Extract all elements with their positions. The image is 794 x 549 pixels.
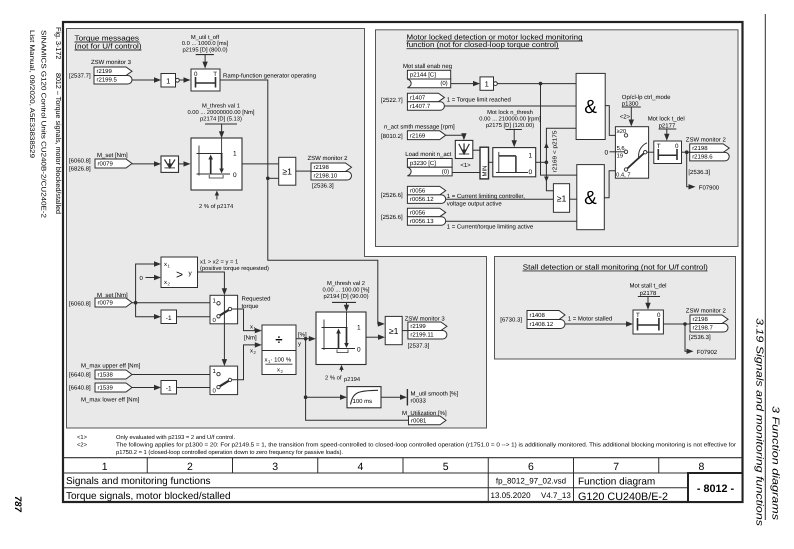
svg-text:1: 1	[357, 325, 361, 332]
svg-text:1 = Motor stalled: 1 = Motor stalled	[568, 316, 613, 323]
svg-text:r0056.13: r0056.13	[410, 218, 434, 225]
svg-text:1: 1	[102, 461, 108, 473]
label Mot stall enab neg	[403, 63, 452, 70]
svg-text:r2169 < p2175: r2169 < p2175	[552, 131, 559, 173]
svg-text:r1408: r1408	[530, 312, 546, 319]
svg-text:r1408.12: r1408.12	[530, 321, 554, 328]
wire timer T2 to ZSW monitor 2	[682, 150, 690, 154]
reference [2536.3] (stall)	[689, 334, 711, 341]
svg-text:ZSW monitor 2: ZSW monitor 2	[308, 155, 349, 162]
wire p2195 to timer T1	[202, 55, 207, 69]
svg-text:r2198.6: r2198.6	[692, 154, 713, 161]
svg-text:T: T	[636, 312, 640, 319]
switch S2	[210, 366, 238, 395]
svg-text:0: 0	[233, 172, 237, 179]
svg-text:0: 0	[657, 312, 661, 319]
footer table grid	[63, 458, 743, 502]
svg-text:13.05.2020: 13.05.2020	[491, 491, 532, 500]
comparator block x1>x2	[161, 257, 198, 288]
junction dot on timer line at OR1	[266, 177, 270, 181]
gray box: stall detection section	[495, 257, 736, 360]
reference [6640.8] b	[69, 385, 91, 392]
wire r0079 to abs A1	[132, 161, 161, 166]
svg-text:p2175 [D] (120.00): p2175 [D] (120.00)	[486, 122, 534, 129]
connector p2144 [C]	[407, 70, 450, 87]
label M_thresh val 2 parameter	[322, 280, 369, 302]
label M_max lower eff [Nm]	[81, 397, 140, 404]
inverter block -1 (a)	[161, 310, 177, 324]
connector r1407 / r1407.7 input	[407, 93, 444, 110]
label Op/cl-lp ctrl_mode p1300	[622, 94, 671, 108]
gray box: motor locked detection section	[376, 30, 739, 247]
svg-text:Mot lock t_del: Mot lock t_del	[648, 116, 685, 123]
svg-text:0.4, 7: 0.4, 7	[616, 172, 631, 179]
svg-text:function (not for closed-loop: function (not for closed-loop torque con…	[407, 40, 559, 49]
svg-text:0.00 ... 210000.00 [rpm]: 0.00 ... 210000.00 [rpm]	[479, 115, 541, 122]
svg-text:M_thresh val 1: M_thresh val 1	[202, 103, 240, 110]
svg-text:MIN: MIN	[482, 166, 489, 177]
svg-text:torque: torque	[242, 304, 260, 310]
svg-text:ZSW monitor 2: ZSW monitor 2	[686, 137, 727, 144]
svg-text:19: 19	[617, 153, 623, 160]
svg-text:Fig. 3-172: Fig. 3-172	[54, 27, 63, 59]
svg-text:r1407.7: r1407.7	[410, 103, 431, 110]
svg-text:(positive torque requested): (positive torque requested)	[200, 265, 269, 272]
svg-text:[Nm]: [Nm]	[244, 335, 257, 342]
svg-text:8012 – Torque signals, motor b: 8012 – Torque signals, motor blocked/sta…	[54, 73, 63, 214]
label ZSW monitor 3 output	[405, 316, 446, 323]
svg-text:Function diagram: Function diagram	[578, 476, 655, 487]
label Mot lock t_del parameter	[648, 116, 685, 130]
svg-text:&: &	[584, 97, 597, 118]
wire r2199.5 to NOT gate	[132, 77, 161, 82]
svg-text:M_max upper eff [Nm]: M_max upper eff [Nm]	[81, 363, 141, 370]
connector r1539 input	[95, 383, 132, 392]
svg-text:M_util t_off: M_util t_off	[191, 34, 220, 41]
switch S1	[210, 295, 238, 324]
wire p2177 to timer T2	[664, 129, 669, 141]
svg-text:Only evaluated with p2193 = 2: Only evaluated with p2193 = 2 and U/f co…	[116, 434, 235, 441]
footnote marker <2>	[620, 114, 631, 121]
OR gate OR2	[385, 316, 402, 344]
svg-text:&: &	[584, 188, 597, 209]
svg-text:p3230 [C]: p3230 [C]	[410, 160, 436, 167]
NOT gate N2	[480, 77, 497, 90]
selector switch p1300	[615, 127, 648, 179]
wire to fault F07900	[687, 152, 696, 189]
wire OR3 to AND2	[570, 198, 577, 200]
label M_set [Nm] lower	[97, 292, 128, 299]
svg-text:Requested: Requested	[242, 296, 271, 303]
svg-text:[2537.7]: [2537.7]	[69, 73, 91, 80]
AND gate AND1	[576, 73, 605, 139]
footer cell G120 CU240B/E-2	[578, 491, 668, 503]
page number 787	[12, 496, 23, 513]
gray box: torque messages + utilization section (L-shape)	[67, 29, 487, 429]
timer T3 on-delay	[633, 310, 663, 334]
wire divider output to hysteresis H2	[296, 336, 316, 341]
label [%] y output	[298, 332, 307, 348]
svg-text:787: 787	[12, 496, 23, 513]
svg-text:(0): (0)	[442, 168, 449, 175]
svg-text:0: 0	[357, 347, 361, 354]
constant 0 for selector	[605, 150, 625, 157]
svg-text:r0079: r0079	[98, 300, 114, 307]
wire hysteresis tail input H1	[215, 191, 219, 200]
svg-text:1: 1	[485, 80, 489, 89]
svg-text:Mot stall t_del: Mot stall t_del	[629, 283, 666, 290]
wire H1 output to OR1	[242, 163, 279, 165]
svg-text:[2536.3]: [2536.3]	[688, 169, 710, 176]
label M_set [Nm]	[97, 152, 128, 159]
wire p2178 to timer T3	[645, 297, 650, 310]
svg-text:SINAMICS G120 Control Units CU: SINAMICS G120 Control Units CU240B-2/CU2…	[40, 30, 47, 218]
abs value block A2	[455, 140, 473, 158]
svg-text:0: 0	[529, 169, 533, 176]
label Mot lock n_thresh parameter	[479, 109, 541, 130]
svg-text:3: 3	[272, 461, 278, 473]
svg-text:V4.7_13: V4.7_13	[541, 491, 571, 500]
svg-text:(not for U/f control): (not for U/f control)	[75, 42, 142, 51]
reference [2526.6] a	[381, 192, 403, 199]
svg-text:[6640.8]: [6640.8]	[69, 385, 91, 392]
svg-text:p2195 [D] (800.0): p2195 [D] (800.0)	[182, 47, 227, 54]
svg-text:≥1: ≥1	[282, 167, 292, 177]
connector r1538 input	[95, 370, 132, 379]
footer column numbers	[102, 461, 705, 473]
svg-text:r2198.10: r2198.10	[314, 173, 338, 180]
wire AND2 output to selector	[604, 171, 624, 198]
reference [2537.7]	[69, 73, 91, 80]
wire hysteresis tail input H2	[339, 365, 343, 372]
label 2 % of p2194	[325, 375, 361, 383]
constant 0 input	[140, 275, 162, 282]
svg-text:r2199.11: r2199.11	[410, 332, 434, 339]
left margin text: SINAMICS	[40, 30, 47, 218]
svg-text:1: 1	[166, 76, 170, 85]
svg-text:0.00 ... 100.00 [%]: 0.00 ... 100.00 [%]	[322, 287, 369, 294]
wire timer T3 to ZSW monitor 2 stall	[663, 322, 690, 326]
reference [2526.6] b	[381, 214, 403, 221]
svg-text:p2194 [D] (90.00): p2194 [D] (90.00)	[323, 293, 368, 300]
svg-text:r2198: r2198	[693, 316, 709, 323]
svg-text:>: >	[176, 268, 183, 282]
left margin text: List Manual	[28, 30, 35, 158]
wire NOT to timer T1	[179, 77, 190, 82]
svg-text:M_util smooth [%]: M_util smooth [%]	[411, 391, 459, 398]
svg-text:r1407: r1407	[410, 94, 426, 101]
label ZSW monitor 2 (motor locked)	[686, 137, 727, 144]
svg-text:[6826.8]: [6826.8]	[69, 166, 91, 173]
footnote marker <1>	[460, 162, 471, 169]
svg-text:n_act smth message [rpm]: n_act smth message [rpm]	[384, 124, 455, 131]
connector r2198 / r2198.10 output	[311, 163, 352, 180]
label Requested torque	[242, 296, 271, 311]
left margin text: Fig. 3-172 caption	[54, 27, 63, 214]
outer frame	[63, 22, 743, 502]
wire comparator y to switch controls	[198, 272, 228, 366]
svg-text:[6060.8]: [6060.8]	[69, 301, 91, 308]
wire p2144 to NOT gate N2	[451, 81, 480, 86]
label M_max upper eff [Nm]	[81, 363, 141, 370]
header: Stall detection	[523, 262, 708, 271]
footnote 2	[77, 441, 736, 448]
inverter block -1 (b)	[161, 381, 177, 395]
reference [6060.8] [6826.8]	[69, 158, 91, 173]
svg-text:1 = Current/torque limiting ac: 1 = Current/torque limiting active	[447, 224, 534, 231]
label x1 > x2 = y = 1	[200, 259, 269, 273]
connector r2169 input	[407, 131, 445, 140]
svg-text:<2>: <2>	[620, 114, 631, 121]
connector r0079 lower input	[95, 298, 132, 307]
svg-text:p1750.2 = 1 (closed-loop contr: p1750.2 = 1 (closed-loop controlled oper…	[116, 449, 343, 456]
svg-text:[2536.3]: [2536.3]	[689, 334, 711, 341]
svg-text:1: 1	[529, 153, 533, 160]
svg-text:[2536.3]: [2536.3]	[312, 183, 334, 190]
svg-text:r2199: r2199	[410, 323, 426, 330]
svg-text:r0056: r0056	[410, 209, 426, 216]
wire OR2 to ZSW monitor 3 connectors	[402, 330, 408, 332]
wire comparison branch up to AND1	[544, 128, 576, 162]
svg-text:[2526.6]: [2526.6]	[381, 214, 403, 221]
hysteresis comparator H2	[316, 312, 366, 365]
svg-text:· 100 %: · 100 %	[271, 357, 292, 364]
wire r1408.12 to timer T3	[565, 321, 633, 326]
right margin text: 3.19 Signals and monitoring functions	[754, 318, 765, 526]
abs value block A1	[161, 156, 179, 172]
timer T2 on-delay	[654, 141, 682, 164]
label x2	[250, 349, 257, 356]
reference [6060.8] lower	[69, 301, 91, 308]
svg-text:6: 6	[528, 461, 534, 473]
wire filter output to r0033 label	[381, 389, 407, 406]
svg-text:<1>: <1>	[460, 162, 471, 169]
svg-text:T: T	[213, 71, 217, 78]
footer cell Function diagram	[578, 476, 655, 487]
footer cell vsd file	[496, 477, 566, 486]
svg-text:p2144 [C]: p2144 [C]	[410, 72, 436, 79]
svg-text:Ramp-function generator operat: Ramp-function generator operating	[223, 73, 316, 80]
connector r2199 / r2199.5 input	[94, 67, 132, 84]
wire selector to timer T2	[647, 151, 654, 153]
svg-text:r2169: r2169	[410, 132, 426, 139]
svg-text:r2198.7: r2198.7	[693, 325, 714, 332]
footer cell Torque signals	[66, 491, 231, 502]
wire S2 output to divider x2	[232, 342, 262, 380]
svg-text:Mot lock n_thresh: Mot lock n_thresh	[487, 109, 533, 116]
label ZSW monitor 2 (stall)	[686, 308, 727, 315]
svg-text:r0033: r0033	[411, 397, 427, 404]
svg-text:0.0 ... 1000.0 [ms]: 0.0 ... 1000.0 [ms]	[182, 40, 229, 47]
OR gate OR3	[553, 184, 569, 213]
connector r2198 / r2198.6 output	[690, 144, 730, 161]
label 1 = Torque limit reached	[447, 97, 511, 104]
svg-text:The following applies for p130: The following applies for p1300 = 20: Fo…	[116, 441, 736, 448]
wire comparison branch down to OR3	[544, 162, 553, 191]
svg-text:[6640.8]: [6640.8]	[69, 372, 91, 379]
connector r0079 input	[95, 159, 132, 168]
reference [2522.7]	[381, 97, 403, 104]
label M_util smooth / r0033	[411, 391, 459, 405]
svg-text:M_set [Nm]: M_set [Nm]	[97, 152, 128, 159]
wire MIN to comparator C2	[489, 161, 493, 163]
svg-text:r0081: r0081	[411, 418, 427, 425]
svg-text:r2198: r2198	[692, 145, 708, 152]
svg-text:p2194: p2194	[344, 376, 361, 383]
svg-text:[6730.3]: [6730.3]	[500, 317, 522, 324]
svg-text:Stall detection or stall monit: Stall detection or stall monitoring (not…	[523, 262, 708, 271]
svg-text:2 % of p2174: 2 % of p2174	[199, 203, 234, 210]
svg-text:100 ms: 100 ms	[353, 398, 373, 405]
wire AND1 output to selector	[605, 106, 624, 136]
comparator C2 n threshold	[493, 148, 536, 177]
label 2 % of p2174	[199, 203, 234, 210]
wire r0056.12 to OR3	[446, 198, 553, 200]
svg-text:voltage output active: voltage output active	[447, 201, 503, 208]
label ZSW monitor 2 (torque section)	[308, 155, 349, 162]
reference [2536.3] (motor locked)	[688, 169, 710, 176]
label Load monit n_act	[405, 151, 451, 158]
svg-text:3 Function diagrams: 3 Function diagrams	[770, 406, 781, 520]
AND gate AND2	[577, 165, 605, 230]
svg-text:F07902: F07902	[697, 349, 718, 356]
svg-text:-1: -1	[166, 315, 172, 322]
wire r1407.7 to AND1	[444, 105, 576, 107]
connector r0081 output	[409, 416, 447, 425]
wire abs A2 to MIN	[473, 149, 480, 151]
wire branch to OR1 lower input	[268, 177, 279, 179]
label r2169 < p2175 vertical	[552, 131, 559, 173]
svg-text:ZSW monitor 3: ZSW monitor 3	[405, 316, 446, 323]
svg-text:r2198: r2198	[314, 164, 330, 171]
svg-text:r0056.12: r0056.12	[410, 196, 434, 203]
svg-text:Torque signals, motor blocked/: Torque signals, motor blocked/stalled	[66, 491, 231, 502]
svg-text:G120 CU240B/E-2: G120 CU240B/E-2	[578, 491, 668, 503]
connector r2198 / r2198.7 output	[690, 315, 728, 332]
label x1 [Nm]	[244, 325, 257, 342]
svg-text:≥1: ≥1	[557, 194, 567, 204]
svg-text:F07900: F07900	[699, 184, 720, 191]
timer T1 off-delay	[191, 69, 220, 91]
svg-text:≥1: ≥1	[389, 326, 399, 336]
svg-text:0: 0	[605, 150, 609, 157]
svg-text:[2537.3]: [2537.3]	[408, 343, 430, 350]
hysteresis comparator H1	[191, 138, 242, 190]
connector p3230 [C]	[407, 159, 452, 176]
svg-text:2 % of: 2 % of	[325, 375, 342, 382]
svg-text:5: 5	[443, 461, 449, 473]
wire r0056.13 to AND2	[446, 220, 577, 222]
svg-text:8: 8	[698, 461, 704, 473]
svg-text:r0079: r0079	[98, 161, 114, 168]
label M_Utilization [%]	[402, 410, 447, 417]
svg-text:[6060.8]: [6060.8]	[69, 158, 91, 165]
wire p2194 to hysteresis H2	[344, 302, 349, 311]
wire -1a to switch S1	[177, 316, 211, 318]
svg-text:2: 2	[187, 461, 193, 473]
svg-text:-1: -1	[166, 385, 172, 392]
svg-text:M_max lower eff [Nm]: M_max lower eff [Nm]	[81, 397, 140, 404]
wire r0079 to switch S1 and branches	[132, 261, 210, 319]
svg-text:r1539: r1539	[98, 385, 114, 392]
svg-text:Op/cl-lp ctrl_mode: Op/cl-lp ctrl_mode	[622, 94, 671, 101]
svg-text:fp_8012_97_02.vsd: fp_8012_97_02.vsd	[496, 477, 566, 486]
svg-text:Load monit n_act: Load monit n_act	[405, 151, 451, 158]
label 1 = Current/torque limiting active	[447, 224, 534, 231]
wire p1300 to selector	[629, 107, 634, 127]
connector r0056 / r0056.12 input	[407, 186, 445, 203]
svg-text:[2526.6]: [2526.6]	[381, 192, 403, 199]
wire abs A1 to hysteresis H1	[179, 161, 191, 166]
connector r2199 / r2199.11 output	[408, 322, 447, 339]
wire NOT branch down to AND2	[541, 84, 577, 176]
svg-text:(0): (0)	[440, 80, 447, 87]
filter block 100 ms	[347, 387, 381, 408]
svg-text:0: 0	[675, 143, 679, 150]
wire N2 to AND1 with junction	[497, 82, 576, 86]
svg-text:3.19 Signals and monitoring fu: 3.19 Signals and monitoring functions	[754, 318, 765, 526]
svg-text:[8010.2]: [8010.2]	[381, 133, 403, 140]
svg-text:List Manual, 09/2020, A5E33838: List Manual, 09/2020, A5E33838529	[28, 30, 35, 158]
reference [8010.2]	[381, 133, 403, 140]
svg-text:÷: ÷	[275, 332, 282, 347]
wire timer T1 output down to lower section	[220, 80, 385, 327]
label 1 = Motor stalled	[568, 316, 613, 323]
wire p2174 to hysteresis H1	[219, 124, 224, 138]
divider block x1*100/x2	[262, 325, 296, 375]
wire -1b to switch S2	[177, 387, 211, 389]
wire p2175 to comparator C2	[512, 130, 517, 148]
wire p3230 to MIN	[452, 172, 480, 174]
footer cell Signals and monitoring functions	[66, 476, 211, 487]
label M_thresh val 1 parameter	[187, 103, 254, 125]
footer cell 8012 number	[688, 473, 743, 502]
svg-text:7: 7	[613, 461, 619, 473]
svg-text:1 = Torque limit reached: 1 = Torque limit reached	[447, 97, 511, 104]
svg-text:y: y	[298, 342, 301, 348]
wire OR1 to ZSW monitor 2 connectors	[296, 170, 311, 172]
svg-text:x1 > x2 = y = 1: x1 > x2 = y = 1	[200, 259, 238, 266]
reference [6640.8] a	[69, 372, 91, 379]
svg-text:<1>: <1>	[77, 435, 88, 441]
svg-text:r2199.5: r2199.5	[97, 77, 118, 84]
label n_act smth message [rpm]	[384, 124, 455, 131]
svg-text:p2174 [D] (5.13): p2174 [D] (5.13)	[200, 116, 242, 123]
svg-text:r0056: r0056	[410, 188, 426, 195]
connector r1408 / r1408.12 input	[527, 311, 565, 329]
svg-text:4: 4	[357, 461, 363, 473]
svg-text:1: 1	[233, 151, 237, 158]
svg-text:ZSW monitor 2: ZSW monitor 2	[686, 308, 727, 315]
svg-text:ZSW monitor 3: ZSW monitor 3	[91, 59, 132, 66]
wire divider output down to filter and r0081	[304, 339, 409, 421]
svg-text:Mot stall enab neg: Mot stall enab neg	[403, 63, 452, 70]
svg-text:0: 0	[194, 71, 198, 78]
svg-text:T: T	[657, 143, 661, 150]
label 1 = Current limiting controller voltage output active	[447, 193, 526, 208]
svg-text:r2199: r2199	[97, 68, 113, 75]
label F07902	[697, 349, 718, 356]
wire r1538 to switch S2	[132, 374, 210, 376]
svg-text:<2>: <2>	[77, 441, 88, 448]
reference [6730.3]	[500, 317, 522, 324]
svg-text:- 8012 -: - 8012 -	[697, 483, 735, 495]
reference [2537.3]	[408, 343, 430, 350]
right margin separator line	[764, 14, 766, 520]
svg-text:0.00 ... 20000000.00 [Nm]: 0.00 ... 20000000.00 [Nm]	[187, 109, 254, 116]
label M_util t_off parameter	[182, 34, 229, 55]
wire r2169 to abs A2	[446, 133, 467, 140]
